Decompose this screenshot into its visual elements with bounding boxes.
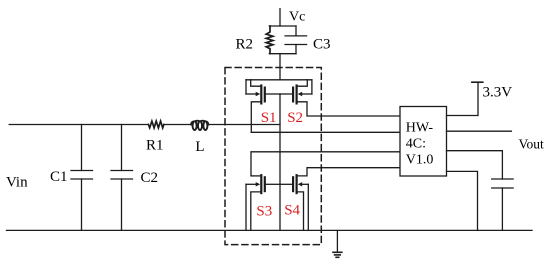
S3 body lead with arrow, down to ground rail xyxy=(246,183,257,185)
wire: main input line through R1 and L xyxy=(9,124,148,126)
svg-text:R2: R2 xyxy=(236,37,254,53)
dashed enclosure box xyxy=(225,68,321,245)
S1 gate bar xyxy=(264,88,266,102)
S1 channel bar xyxy=(260,86,262,104)
wire: R2/C3 top bar xyxy=(269,25,296,27)
S3 channel bar xyxy=(260,175,262,193)
capacitor C4 (output bypass) xyxy=(492,179,513,230)
S1 drain jog xyxy=(251,80,262,86)
IC U1 text xyxy=(406,121,434,168)
capacitor C3 xyxy=(285,26,307,54)
S1 source lead xyxy=(251,102,261,133)
capacitor C1 xyxy=(71,125,93,231)
wire: Vout line xyxy=(447,130,512,132)
S4 body lead with arrow, down to ground rail xyxy=(301,183,308,185)
transistor S3 xyxy=(246,175,280,230)
svg-text:S3: S3 xyxy=(256,203,272,219)
svg-text:R1: R1 xyxy=(146,138,164,154)
wire: 3.3V supply to HW-4C xyxy=(447,82,479,115)
S4 drain lead up to HW line 4 xyxy=(297,168,400,176)
S3 gate bar xyxy=(264,177,266,191)
wire: from L to center stem xyxy=(208,124,280,126)
wire: R2/C3 bottom bar xyxy=(269,53,296,55)
svg-text:S1: S1 xyxy=(261,110,277,126)
svg-text:3.3V: 3.3V xyxy=(483,85,513,101)
S2 gate lead to stem xyxy=(280,93,292,95)
wire: top drain rail of S1/S2 xyxy=(246,79,312,81)
S2 body lead with arrow xyxy=(311,80,313,94)
S3 gate lead to stem xyxy=(266,183,280,185)
wire: between R1 and L xyxy=(164,124,191,126)
svg-text:L: L xyxy=(195,139,204,155)
svg-text:4C:: 4C: xyxy=(406,137,426,152)
S4 channel bar xyxy=(296,175,298,193)
ground symbol xyxy=(333,230,342,257)
svg-text:HW-: HW- xyxy=(406,121,434,136)
S4 gate bar xyxy=(292,177,294,191)
S2 drain jog xyxy=(297,80,308,86)
svg-text:Vc: Vc xyxy=(289,9,305,24)
S4 source lead down to ground rail xyxy=(297,192,304,231)
transistor S4 xyxy=(280,168,400,231)
svg-text:V1.0: V1.0 xyxy=(406,152,434,167)
wire: S3 drain rail to HW-4C (line 3) xyxy=(251,152,400,176)
S2 channel bar xyxy=(296,86,298,104)
svg-text:Vout: Vout xyxy=(519,136,545,151)
transistor S2 xyxy=(280,80,400,116)
S2 gate bar xyxy=(292,88,294,102)
wire: HW-4C to output capacitor xyxy=(447,151,503,179)
S3 drain lead xyxy=(251,175,261,177)
resistor R1 xyxy=(148,121,164,128)
svg-text:S2: S2 xyxy=(287,110,303,126)
capacitor C2 xyxy=(111,125,133,231)
svg-text:C2: C2 xyxy=(141,170,159,186)
3.3V terminal bar xyxy=(472,81,483,83)
inductor L xyxy=(191,121,208,130)
resistor R2 xyxy=(266,26,273,54)
svg-text:C3: C3 xyxy=(313,37,331,53)
S4 gate lead to stem xyxy=(280,183,292,185)
svg-text:Vin: Vin xyxy=(6,175,28,191)
wire: S1 source to HW-4C input (line 2) xyxy=(251,131,400,133)
wire: center gate-drive stem down to ground rail xyxy=(279,94,281,230)
transistor S1 xyxy=(246,80,280,133)
IC U1 HW-4C box xyxy=(400,107,447,177)
S1 gate lead to stem xyxy=(266,93,280,95)
S3 source lead down to ground rail xyxy=(251,192,261,231)
svg-text:S4: S4 xyxy=(284,202,300,218)
S1 body lead with arrow xyxy=(245,80,247,94)
svg-text:C1: C1 xyxy=(50,169,68,185)
S2 source lead down to HW line xyxy=(297,102,400,116)
wire: HW-4C bottom pin to ground rail xyxy=(447,171,478,230)
wire: bottom ground rail xyxy=(7,229,533,231)
wire: center stem from R2/C3 down to drain rail xyxy=(279,54,281,80)
wire: Vc stem top xyxy=(279,9,281,26)
